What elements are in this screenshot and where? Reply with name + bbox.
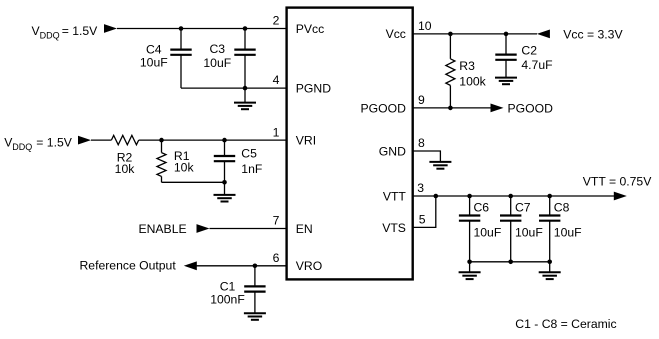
node VDDQ (VRI) input arrow bbox=[78, 136, 91, 145]
value label C6 10uF bbox=[474, 201, 502, 240]
svg-text:= 1.5V: = 1.5V bbox=[36, 136, 72, 150]
wire VRI pin 1 bbox=[139, 139, 287, 141]
svg-text:R3: R3 bbox=[459, 59, 475, 73]
ground (C8) bbox=[539, 262, 561, 279]
capacitor C2 bbox=[495, 34, 516, 78]
wire PVcc pin 2 bbox=[117, 28, 287, 30]
wire R1/C5 bottom bbox=[162, 181, 225, 183]
svg-text:C5: C5 bbox=[241, 147, 257, 161]
value label C3 10uF bbox=[203, 42, 231, 70]
svg-text:10uF: 10uF bbox=[474, 226, 502, 240]
node VDDQ (top) label bbox=[32, 24, 99, 40]
svg-text:VTT: VTT bbox=[383, 190, 407, 204]
junction C7/VTT bbox=[508, 194, 513, 199]
svg-text:PVcc: PVcc bbox=[296, 22, 324, 36]
capacitor C7 bbox=[500, 196, 521, 262]
op-amp U1 (regulator IC body) bbox=[287, 8, 413, 280]
svg-text:100nF: 100nF bbox=[210, 292, 245, 306]
svg-text:VRO: VRO bbox=[296, 259, 322, 273]
svg-text:C7: C7 bbox=[515, 201, 531, 215]
node Reference Output arrow bbox=[184, 261, 197, 270]
value label R2 10k bbox=[115, 151, 136, 177]
junction PGND/ground bbox=[243, 86, 248, 91]
svg-text:C2: C2 bbox=[521, 43, 537, 57]
junction C5/VRI bbox=[222, 138, 227, 143]
junction C3/PVcc bbox=[243, 26, 248, 31]
wire PGOOD pin 9 bbox=[413, 107, 491, 109]
resistor R1 bbox=[157, 140, 166, 182]
capacitor C5 bbox=[214, 140, 235, 182]
wire Vcc pin 10 bbox=[413, 33, 537, 35]
ground (C1) bbox=[244, 313, 266, 320]
junction VTS/VTT bbox=[434, 194, 439, 199]
ground (PGND) bbox=[234, 88, 256, 109]
node VDDQ (VRI) label bbox=[4, 136, 73, 152]
node ENABLE input arrow bbox=[197, 224, 210, 233]
junction R3/Vcc bbox=[448, 32, 453, 37]
value label R1 10k bbox=[174, 149, 195, 175]
svg-text:GND: GND bbox=[379, 145, 406, 159]
resistor R3 bbox=[446, 34, 455, 108]
svg-text:10uF: 10uF bbox=[203, 56, 231, 70]
svg-text:VRI: VRI bbox=[296, 134, 316, 148]
wire C6-C8 bottom bbox=[470, 261, 550, 263]
ground (C5) bbox=[214, 182, 236, 201]
svg-text:DDQ: DDQ bbox=[40, 30, 60, 40]
svg-text:Vcc: Vcc bbox=[386, 27, 406, 41]
svg-text:10k: 10k bbox=[174, 161, 195, 175]
svg-text:VTT = 0.75V: VTT = 0.75V bbox=[583, 174, 652, 188]
svg-text:3: 3 bbox=[417, 181, 424, 195]
svg-text:C1 - C8 = Ceramic: C1 - C8 = Ceramic bbox=[515, 317, 616, 331]
svg-text:DDQ: DDQ bbox=[12, 142, 32, 152]
capacitor C8 bbox=[539, 196, 560, 262]
value label C5 1nF bbox=[241, 147, 262, 176]
svg-text:10uF: 10uF bbox=[554, 226, 582, 240]
svg-text:7: 7 bbox=[273, 214, 280, 228]
junction R1/VRI bbox=[159, 138, 164, 143]
svg-text:PGND: PGND bbox=[296, 81, 331, 95]
junction C1/VRO bbox=[253, 264, 258, 269]
node VTT = 0.75V arrow bbox=[614, 192, 627, 201]
resistor R2 bbox=[111, 135, 138, 144]
capacitor C1 bbox=[244, 266, 265, 313]
wire GND pin 8 bbox=[413, 151, 441, 162]
junction C6/VTT bbox=[467, 194, 472, 199]
svg-text:6: 6 bbox=[273, 251, 280, 265]
svg-text:4: 4 bbox=[273, 73, 280, 87]
value label R3 100k bbox=[459, 59, 486, 89]
node Vcc = 3.3V arrow bbox=[537, 30, 550, 39]
svg-text:PGOOD: PGOOD bbox=[361, 102, 407, 116]
svg-text:VTS: VTS bbox=[382, 221, 406, 235]
svg-text:2: 2 bbox=[273, 14, 280, 28]
svg-text:C3: C3 bbox=[210, 42, 226, 56]
value label C7 10uF bbox=[515, 201, 543, 240]
junction C2/Vcc bbox=[504, 32, 509, 37]
junction C6 bottom bbox=[467, 260, 472, 265]
ground (C6) bbox=[459, 262, 481, 279]
junction C5 bottom bbox=[222, 180, 227, 185]
svg-text:Vcc = 3.3V: Vcc = 3.3V bbox=[563, 27, 623, 41]
svg-text:5: 5 bbox=[419, 213, 426, 227]
svg-text:ENABLE: ENABLE bbox=[139, 222, 187, 236]
svg-text:1: 1 bbox=[273, 125, 280, 139]
svg-text:8: 8 bbox=[418, 136, 425, 150]
junction C8 bottom bbox=[547, 260, 552, 265]
svg-text:9: 9 bbox=[418, 93, 425, 107]
wire VTS pin 5 bbox=[413, 196, 436, 227]
wire VTT pin 3 bbox=[413, 195, 614, 197]
svg-text:10k: 10k bbox=[115, 162, 136, 176]
svg-text:100k: 100k bbox=[459, 74, 486, 88]
value label C4 10uF bbox=[140, 43, 168, 70]
svg-text:C6: C6 bbox=[474, 201, 490, 215]
junction C8/VTT bbox=[547, 194, 552, 199]
svg-text:10: 10 bbox=[418, 19, 432, 33]
svg-text:EN: EN bbox=[296, 222, 313, 236]
svg-text:C8: C8 bbox=[554, 201, 570, 215]
svg-text:10uF: 10uF bbox=[515, 226, 543, 240]
ground (C2) bbox=[495, 78, 517, 85]
value label C2 4.7uF bbox=[521, 43, 552, 72]
svg-text:PGOOD: PGOOD bbox=[508, 101, 554, 115]
node VDDQ (top) input arrow bbox=[104, 24, 117, 33]
wire VRO pin 6 bbox=[189, 265, 287, 267]
wire PGND pin 4 bbox=[181, 87, 287, 89]
junction C4/PVcc bbox=[179, 26, 184, 31]
svg-text:= 1.5V: = 1.5V bbox=[62, 24, 98, 38]
value label C1 100nF bbox=[210, 280, 245, 307]
value label C8 10uF bbox=[554, 201, 582, 240]
capacitor C3 bbox=[234, 29, 255, 89]
svg-text:1nF: 1nF bbox=[241, 162, 262, 176]
wire EN pin 7 bbox=[210, 228, 287, 230]
junction R3/PGOOD bbox=[448, 106, 453, 111]
svg-text:10uF: 10uF bbox=[140, 55, 168, 69]
svg-text:4.7uF: 4.7uF bbox=[521, 58, 552, 72]
node PGOOD output arrow bbox=[491, 104, 504, 113]
svg-text:Reference Output: Reference Output bbox=[80, 259, 177, 273]
junction C7 bottom bbox=[508, 260, 513, 265]
ground (GND pin) bbox=[429, 162, 451, 169]
wire VRI left segment bbox=[91, 139, 111, 141]
capacitor C4 bbox=[170, 29, 191, 89]
capacitor C6 bbox=[459, 196, 480, 262]
